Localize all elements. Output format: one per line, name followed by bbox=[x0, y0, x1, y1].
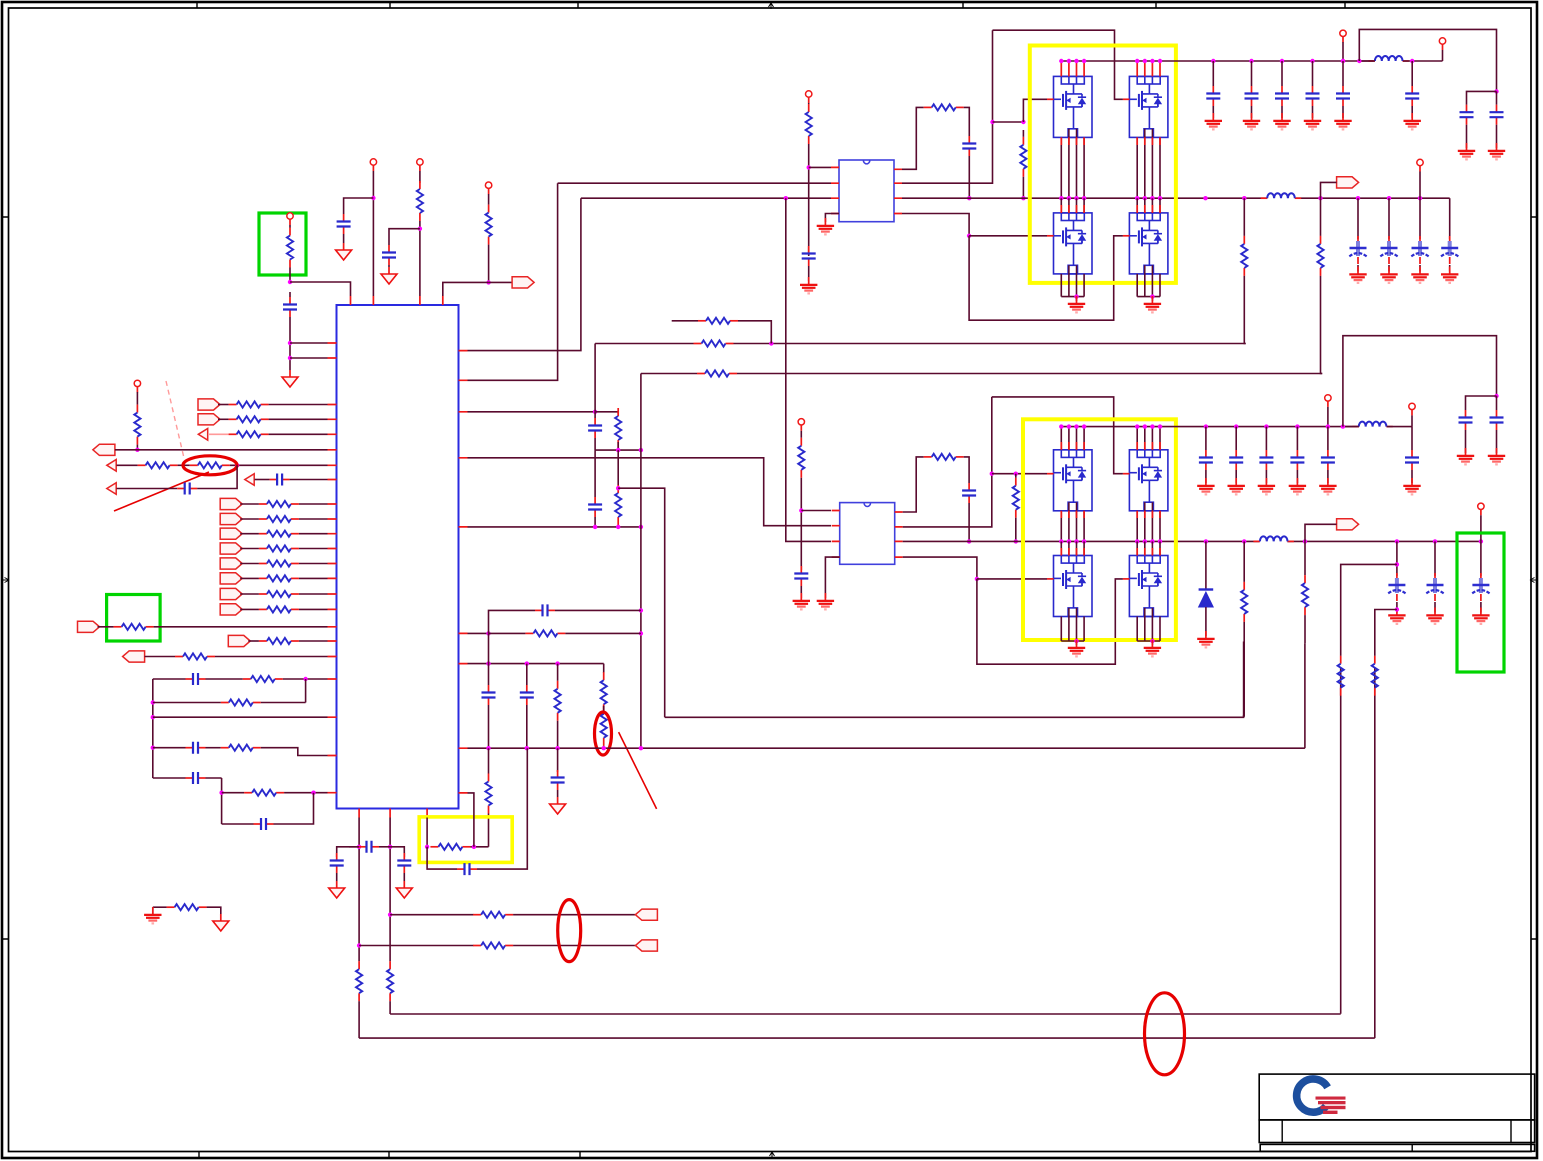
connector tag row-641 bbox=[228, 635, 250, 646]
triangle ground 557 bbox=[550, 797, 566, 814]
chainD top bbox=[1304, 541, 1306, 575]
resistor R-dbl1 bbox=[601, 672, 607, 712]
riser to R chain B bbox=[1304, 643, 1306, 748]
capacitor C-s2 bbox=[588, 497, 602, 517]
wire rail2 to C1297.4 bbox=[1296, 427, 1298, 450]
green highlight box G3 bbox=[1457, 533, 1504, 672]
power MOSFET Q5 (high side) bbox=[1054, 450, 1093, 511]
low gate2 to Q7 bbox=[977, 578, 1047, 580]
earth ground vm2b bbox=[1403, 478, 1420, 494]
row 663 from U1 bbox=[468, 663, 604, 665]
resistor R-656 bbox=[175, 653, 215, 659]
junction gate1 bbox=[990, 120, 994, 124]
wire C to gnd bbox=[1411, 470, 1413, 483]
border arrow bottom center bbox=[770, 1152, 775, 1158]
node rc3 bbox=[486, 631, 490, 635]
cap to gnd bbox=[336, 873, 338, 881]
wire term to R bbox=[289, 225, 291, 228]
rail dot 747 bbox=[151, 746, 155, 750]
connector tag IN6 bbox=[220, 573, 242, 584]
connector tag IN2 bbox=[220, 513, 242, 524]
red annotation ellipse E3 bbox=[558, 900, 581, 962]
low gate detour to Q4 bbox=[969, 236, 1123, 320]
wire to gnd bbox=[1151, 641, 1153, 645]
Q8 gate stub bbox=[1123, 578, 1130, 580]
wire pcap4 to gnd bbox=[1449, 265, 1451, 272]
wire U1 pin to bus1 riser bbox=[468, 198, 581, 350]
wire VDD1 to U1 top pin2 bbox=[372, 171, 374, 296]
rail dot 717 bbox=[151, 715, 155, 719]
wire arr6 to cap bbox=[255, 479, 270, 481]
wire R to node bbox=[289, 268, 291, 283]
column A lower bbox=[358, 1001, 360, 1038]
sense RC row1 bbox=[595, 449, 641, 451]
bus2 dot 1205.9 bbox=[1204, 539, 1208, 543]
term2 to rail end bbox=[1442, 50, 1444, 61]
wire C to gnd bbox=[1212, 106, 1214, 118]
Q5 gate stub bbox=[1047, 473, 1054, 475]
connector tag IN7 bbox=[220, 588, 242, 599]
dot farright bbox=[1494, 89, 1498, 93]
earth ground fr1 bbox=[1458, 143, 1475, 159]
capacitor C-rail2-1205.9 bbox=[1199, 450, 1213, 470]
title block middle band divider bbox=[1282, 1120, 1511, 1143]
wire pcap to gnd bbox=[1434, 602, 1436, 613]
chainA to rowB bbox=[1244, 276, 1245, 344]
sense line riser x664 bbox=[618, 488, 665, 717]
wire to bypass cap bbox=[344, 198, 374, 214]
row846 right elbow bbox=[390, 847, 404, 857]
rail dot 1145 bbox=[1143, 59, 1147, 63]
resistor R5a bbox=[138, 462, 178, 468]
polarized capacitor CP2-1396.9 bbox=[1388, 573, 1405, 601]
arrow connector OUT-A bbox=[198, 429, 207, 441]
polarized capacitor CP2-1435 bbox=[1426, 573, 1443, 601]
wire R5b to U1 bbox=[230, 464, 328, 466]
earth ground CP21435 bbox=[1426, 608, 1443, 624]
dot s2b bbox=[616, 525, 620, 529]
wire bus2 to pcap 1480.9 bbox=[1480, 541, 1482, 576]
rail1 dot 1213.3 bbox=[1211, 59, 1215, 63]
branch right cap bbox=[1496, 91, 1498, 104]
row846 left elbow bbox=[337, 847, 359, 857]
wire to gnd bbox=[1076, 641, 1078, 645]
sense riser 1 lower bbox=[1340, 668, 1342, 1014]
wire C to gnd bbox=[1235, 470, 1237, 483]
wire tag4 to R bbox=[240, 548, 259, 550]
red annotation ellipse E2 bbox=[595, 712, 612, 755]
colA dot 945 bbox=[357, 943, 361, 947]
wire down to earth gnd bbox=[152, 907, 154, 914]
wire Rl1 to U1 bbox=[283, 678, 328, 680]
wire U1 pin to boot riser bbox=[468, 183, 558, 380]
terminal VIN1 bbox=[1439, 38, 1445, 50]
ground gnd-vcc1 bbox=[282, 370, 298, 387]
wire cap6 to U1 bbox=[290, 479, 328, 481]
rail2 dot 1266.4 bbox=[1264, 424, 1268, 428]
wire pcap to gnd bbox=[1357, 265, 1359, 272]
wire Cl6 up bbox=[274, 793, 314, 824]
rail2 dot 1152 bbox=[1150, 424, 1154, 428]
bus1 phase rail bbox=[902, 197, 1267, 199]
wire U1 top pin4 to node bbox=[443, 282, 489, 296]
capacitor C-488 bbox=[482, 685, 496, 705]
capacitor C-fr1 bbox=[1460, 105, 1474, 125]
wire to gnd bbox=[1496, 430, 1498, 453]
dot s2a bbox=[593, 525, 597, 529]
drop to cap 557 bbox=[557, 748, 559, 772]
wire R to row bbox=[617, 442, 619, 450]
wire to bypass cap2 bbox=[389, 229, 420, 245]
stub bbox=[1022, 130, 1024, 137]
title block bottom band divider bbox=[1411, 1144, 1413, 1151]
wire C to gnd bbox=[1296, 470, 1298, 483]
wire cap to gnd bbox=[800, 586, 802, 598]
U2 left pin stubs bbox=[831, 167, 839, 213]
Q4 drain wires bbox=[1137, 198, 1160, 213]
earth ground bl bbox=[144, 907, 161, 923]
cap3 loop up bbox=[489, 610, 536, 633]
wire tag3 to R bbox=[240, 533, 259, 535]
wire Rl2 to vert bbox=[261, 702, 306, 704]
wire tag1 to R bbox=[240, 503, 259, 505]
drain rail 2 bbox=[1061, 426, 1359, 428]
cap3 to x641 bbox=[555, 609, 641, 611]
wire U1 pin to RC3 bbox=[468, 632, 489, 634]
wire U1 to driver2 pin bbox=[468, 458, 832, 526]
junction lowgate1 bbox=[967, 234, 971, 238]
resistor R-vcc1 bbox=[287, 228, 293, 268]
drop 488 to R bbox=[488, 748, 490, 773]
U1 top pin stubs bbox=[351, 296, 443, 305]
rail2 dot 1145 bbox=[1143, 424, 1147, 428]
capacitor C-fr4 bbox=[1490, 410, 1504, 430]
wire node to R bbox=[595, 412, 618, 414]
resistor R-in5 bbox=[259, 560, 299, 566]
dot 748e bbox=[639, 746, 643, 750]
wire row to R2 bbox=[617, 450, 619, 485]
bus1 dot 1358 bbox=[1356, 196, 1360, 200]
power MOSFET Q3 (low side) bbox=[1054, 213, 1093, 274]
title block outer box bbox=[1259, 1074, 1534, 1120]
wire bus to pcap 1420 bbox=[1419, 198, 1421, 239]
Q8 drain wires bbox=[1137, 541, 1160, 555]
wire tag8 to R bbox=[240, 608, 259, 610]
row A to row B bbox=[738, 321, 771, 344]
stub2 bbox=[1015, 474, 1017, 478]
wire rail2 to C1205.9 bbox=[1205, 427, 1207, 450]
diode D1 bbox=[1199, 590, 1214, 608]
resistor R-gnd-bl bbox=[167, 904, 207, 910]
dot 748b bbox=[525, 746, 529, 750]
logo blue C ring bbox=[1297, 1079, 1328, 1112]
gate row 2 bbox=[992, 473, 1047, 475]
capacitor C-rail2-1236.2 bbox=[1229, 450, 1243, 470]
terminal PH2 bbox=[1478, 503, 1484, 515]
wire pcap to gnd bbox=[1388, 265, 1390, 272]
earth ground CP4 bbox=[1441, 267, 1458, 283]
wire tag6 to R bbox=[240, 577, 259, 579]
wire R to node bbox=[488, 245, 490, 283]
chainC top bbox=[1243, 541, 1245, 582]
riser to R chain A bbox=[1243, 642, 1245, 718]
Q3 drain wires bbox=[1061, 198, 1084, 213]
connector tagL row4 bbox=[93, 444, 115, 455]
column B lower bbox=[389, 1001, 391, 1014]
resistor R-outA bbox=[229, 431, 269, 437]
dot s1 bbox=[616, 448, 620, 452]
arrow connector row7 bbox=[107, 483, 116, 495]
wire node to U1 top pin1 bbox=[290, 282, 351, 296]
bus dot 1084 bbox=[1082, 196, 1086, 200]
U2 right pin stubs bbox=[894, 169, 902, 213]
border zone ticks right bbox=[1531, 217, 1537, 939]
term to rail bbox=[1342, 42, 1344, 61]
power MOSFET Q4 (low side) bbox=[1129, 213, 1168, 274]
wire R2 to row2 bbox=[617, 525, 619, 527]
Q4 gate stub bbox=[1123, 235, 1130, 237]
wire to driver2 pin1 bbox=[801, 510, 831, 512]
yellow row right bbox=[470, 846, 488, 848]
drop 488 to cap bbox=[488, 633, 490, 685]
bus2 dot 1069 bbox=[1067, 539, 1071, 543]
Q4 source wires bbox=[1137, 274, 1160, 297]
wire tag656 to R bbox=[145, 656, 175, 658]
term2b to rail bbox=[1411, 415, 1413, 426]
wire rail2 to Cl6 bbox=[222, 823, 254, 825]
resistor R-rowC bbox=[697, 370, 737, 376]
earth ground C1213.3 bbox=[1205, 113, 1222, 129]
bus2 dot 1076 bbox=[1074, 539, 1078, 543]
wire C2 down to bus bbox=[968, 503, 970, 541]
wire R to U1 bbox=[269, 404, 328, 406]
yellow highlight box HB1 bbox=[1030, 46, 1176, 283]
connector tag VREF out bbox=[512, 277, 534, 288]
cap to gnd bbox=[557, 790, 559, 797]
main controller IC U1 bbox=[337, 305, 459, 809]
rail2 dot 1076 bbox=[1074, 424, 1078, 428]
junction snub2 bus bbox=[967, 539, 971, 543]
drop 527 to cap bbox=[526, 664, 528, 685]
resistor R-rowA bbox=[698, 318, 738, 324]
capacitor C-row846R bbox=[397, 853, 411, 873]
wire R3 to U1 bbox=[299, 533, 328, 535]
resistor R-colB bbox=[387, 961, 393, 1001]
connector tag IN4 bbox=[220, 543, 242, 554]
junction row5 bbox=[235, 463, 239, 467]
term to rail bbox=[1419, 172, 1421, 199]
resistor R-rc3 bbox=[525, 630, 565, 636]
row C right part bbox=[737, 373, 1322, 375]
rail1 dot 1251.5 bbox=[1249, 59, 1253, 63]
resistor R5b bbox=[190, 462, 230, 468]
wire R656 to U1 bbox=[215, 656, 328, 658]
wire arr5 to R1 bbox=[117, 464, 138, 466]
dot farright2 bbox=[1494, 394, 1498, 398]
dot upload loop bbox=[1357, 59, 1361, 63]
terminal VREF bbox=[485, 182, 491, 194]
resistor R-in8 bbox=[259, 606, 299, 612]
rail1 dot 1282 bbox=[1280, 59, 1284, 63]
wire R7 to U1 bbox=[299, 593, 328, 595]
capacitor C-rail1-1213.3 bbox=[1206, 86, 1220, 106]
resistor R-488b bbox=[485, 774, 491, 814]
wire R to snub C2 bbox=[964, 457, 969, 483]
wire Cl4 to vert bbox=[206, 777, 222, 779]
resistor R-inA bbox=[229, 401, 269, 407]
source merge dot 3 bbox=[1074, 294, 1078, 298]
wire cap to gnd bbox=[343, 234, 345, 243]
bus dot 1160 bbox=[1158, 196, 1162, 200]
chainB to rowC bbox=[1321, 276, 1323, 374]
resistor R-sr2 bbox=[1372, 656, 1378, 696]
capacitor C-rail1-1282 bbox=[1275, 86, 1289, 106]
dot loop2 bbox=[1341, 424, 1345, 428]
wire to R3 bbox=[489, 632, 526, 634]
wire gndE to R bbox=[153, 906, 167, 908]
wire R to U1 bbox=[269, 433, 328, 435]
capacitor C-snub2 bbox=[962, 483, 976, 503]
chainA top bbox=[1243, 198, 1245, 236]
capacitor C-s1 bbox=[588, 418, 602, 438]
resistor R-dbl2 bbox=[601, 706, 607, 746]
earth ground D1 bbox=[1197, 631, 1214, 647]
wire rail to C1312.5 bbox=[1312, 61, 1314, 86]
junction vdrv2 bbox=[799, 508, 803, 512]
gate jog to Q1 bbox=[1023, 99, 1047, 122]
wire tag2 to R bbox=[240, 518, 259, 520]
resistor R-vdrv1 bbox=[806, 104, 812, 144]
wire R8 to U1 bbox=[299, 608, 328, 610]
tap s2 bbox=[616, 486, 620, 490]
bus dot 1145 bbox=[1143, 196, 1147, 200]
polarized capacitor CP-1358 bbox=[1349, 236, 1366, 264]
resistor R-l1 bbox=[243, 676, 283, 682]
wire RG2 to U1 bbox=[154, 626, 328, 628]
resistor R-snub1 bbox=[924, 104, 964, 110]
terminal VDD2 bbox=[417, 159, 423, 171]
wire to gnd bbox=[1496, 125, 1498, 148]
wire to gnd bbox=[1076, 297, 1078, 301]
junction row4 bbox=[135, 448, 139, 452]
gate driver IC U3 bbox=[840, 503, 895, 565]
wire C to gnd bbox=[1251, 106, 1253, 118]
long row 1038 bbox=[359, 1037, 1375, 1039]
Q6 drain pin stubs bbox=[1137, 427, 1160, 450]
wire C to gnd bbox=[1205, 470, 1207, 483]
Q3 gate stub bbox=[1047, 235, 1054, 237]
junction rowA-rowB bbox=[769, 341, 773, 345]
capacitor C-l1 bbox=[186, 673, 206, 685]
rail dot 1152 bbox=[1150, 59, 1154, 63]
connector tag OUT1 bbox=[1337, 177, 1359, 188]
rail2 dot 1069 bbox=[1067, 424, 1071, 428]
bus1 dot 1320.5 bbox=[1318, 196, 1322, 200]
capacitor C-row846mid bbox=[359, 841, 379, 853]
wire Cl1 to Rl1 bbox=[206, 678, 243, 680]
polarized capacitor CP2-1480.9 bbox=[1472, 573, 1489, 601]
node vref bbox=[486, 280, 490, 284]
wire bus2 to pcap 1396.9 bbox=[1396, 541, 1398, 576]
wire tag to R bbox=[218, 418, 229, 420]
row945 left bbox=[359, 945, 473, 947]
wire rail row 717 to U1 bbox=[153, 716, 328, 718]
red annotation leader E2 bbox=[619, 732, 657, 809]
wire C down to bus bbox=[968, 156, 970, 198]
earth ground U2 bbox=[817, 218, 834, 234]
resistor R-snub2 bbox=[924, 454, 964, 460]
wire node to cap bbox=[289, 292, 291, 297]
capacitor C-557b bbox=[551, 770, 565, 790]
bus2 dot 1396.9 bbox=[1395, 539, 1399, 543]
resistor R-chainB bbox=[1317, 236, 1323, 276]
earth ground Q4 bbox=[1144, 296, 1161, 312]
wire R641 to U1 bbox=[299, 640, 328, 642]
wire cap2 to row2 bbox=[594, 517, 596, 527]
dot 748a bbox=[486, 746, 490, 750]
wire U2 gnd pin bbox=[825, 214, 839, 223]
terminal VDRV2 bbox=[798, 419, 804, 431]
capacitor C-l3 bbox=[186, 742, 206, 754]
capacitor C-l6 bbox=[254, 818, 274, 830]
source merge dot 4 bbox=[1150, 294, 1154, 298]
row914 right bbox=[513, 914, 640, 916]
wire R6 to U1 bbox=[299, 577, 328, 579]
wire cap2 to gnd bbox=[388, 265, 390, 267]
triangle ground bl bbox=[213, 914, 229, 931]
resistor R-l2 bbox=[221, 699, 261, 705]
R3 to x641 bbox=[565, 632, 641, 634]
riser to row B bbox=[594, 344, 596, 412]
Q3 source wires bbox=[1061, 274, 1084, 297]
dot 663a bbox=[486, 661, 490, 665]
U2 pin4 wire bbox=[902, 214, 969, 236]
term to rail2 bbox=[1327, 407, 1329, 427]
loop2 to far right caps bbox=[1343, 336, 1497, 427]
wire rail to Cl3 bbox=[153, 747, 186, 749]
rail2 dot 1236.2 bbox=[1234, 424, 1238, 428]
resistor R-l3 bbox=[221, 745, 261, 751]
wire to cap bbox=[1411, 61, 1413, 86]
wire Rl5 to U1 bbox=[284, 792, 327, 794]
rail dot 1137 bbox=[1135, 59, 1139, 63]
gate branch bbox=[993, 121, 1024, 123]
arrow connector row5 bbox=[107, 460, 116, 472]
rail dot 1084 bbox=[1082, 59, 1086, 63]
wire R down bbox=[808, 144, 810, 256]
colA dot 846 bbox=[357, 845, 361, 849]
wire C to gnd bbox=[1281, 106, 1283, 118]
yellow highlight box HB2 bbox=[1023, 419, 1176, 640]
earth ground U3 bbox=[817, 593, 834, 609]
dot 663c bbox=[555, 661, 559, 665]
bus dot 1061 bbox=[1059, 196, 1063, 200]
resistor R-s1 bbox=[615, 408, 621, 448]
capacitor C-vcc1 bbox=[283, 297, 297, 317]
earth ground CP21396.9 bbox=[1388, 608, 1405, 624]
earth ground fr2 bbox=[1488, 143, 1505, 159]
earth ground CP1420 bbox=[1411, 267, 1428, 283]
wire U3 to snub R2 bbox=[903, 457, 924, 512]
source merge dot 7 bbox=[1074, 639, 1078, 643]
bus dot 1137 bbox=[1135, 196, 1139, 200]
colB dot 846 bbox=[388, 845, 392, 849]
connector tag IN8 bbox=[220, 604, 242, 615]
wire C to gnd bbox=[1342, 106, 1344, 118]
wire U2 to snub R bbox=[902, 107, 924, 169]
junction vdd2 bbox=[418, 227, 422, 231]
wire rail to C1213.3 bbox=[1212, 61, 1214, 86]
